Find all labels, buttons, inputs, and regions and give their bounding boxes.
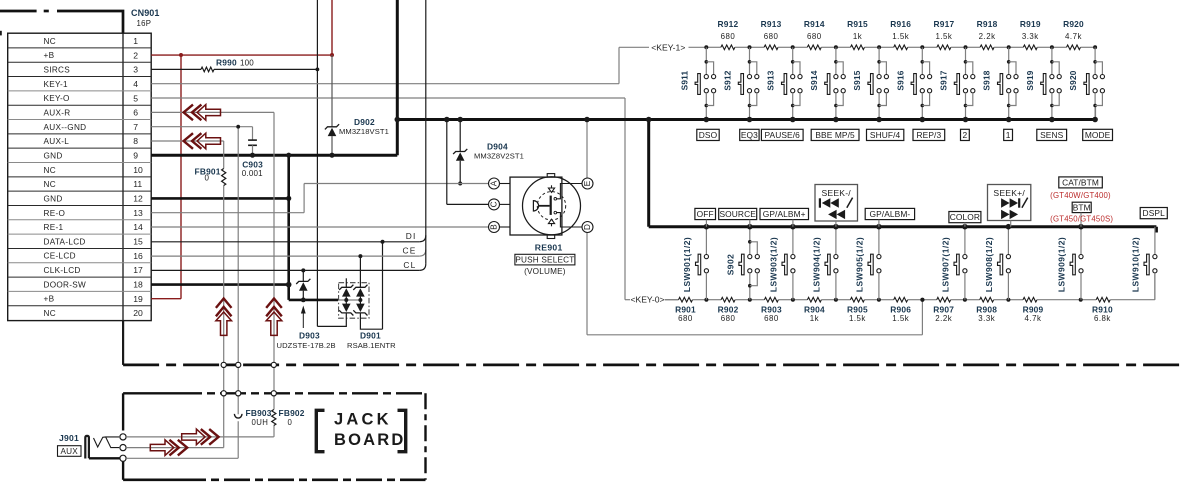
- junction CE to D901: [358, 254, 362, 258]
- resistor R901 680: [665, 297, 707, 323]
- svg-text:S918: S918: [982, 70, 992, 90]
- board border tick: [0, 31, 2, 36]
- net label KEY-0: [630, 295, 664, 305]
- wire SIRCS (pin3) with R990: [151, 0, 319, 326]
- wire CE-LCD / CE (pin16): [151, 250, 426, 257]
- capacitor C903 0.001: [242, 127, 263, 179]
- svg-text:1.5k: 1.5k: [892, 314, 909, 323]
- junction KEY-1 ladder node 6: [920, 45, 924, 49]
- svg-text:S916: S916: [895, 70, 905, 90]
- junction KEY-1 ladder node 7: [964, 45, 968, 49]
- main board border top dash-dot: [0, 11, 123, 33]
- svg-text:S920: S920: [1068, 70, 1078, 90]
- svg-text:FB903: FB903: [246, 408, 272, 418]
- model note (GT40W/GT400): [1050, 191, 1111, 200]
- switch LSW905: [854, 224, 881, 300]
- svg-text:4.7k: 4.7k: [1065, 32, 1082, 41]
- junction KEY-0 ladder node 1: [704, 298, 708, 302]
- junction KEY-0 ladder node 8: [1006, 298, 1010, 302]
- svg-text:D904: D904: [487, 141, 508, 151]
- svg-text:LSW905(1/2): LSW905(1/2): [854, 237, 864, 292]
- wire AUX-R (pin6): [151, 112, 274, 437]
- svg-text:<KEY-1>: <KEY-1>: [651, 42, 685, 52]
- key cap label MODE: [1083, 129, 1113, 140]
- svg-text:3.3k: 3.3k: [1022, 32, 1039, 41]
- svg-text:17: 17: [133, 265, 143, 275]
- svg-text:CLK-LCD: CLK-LCD: [44, 266, 81, 275]
- resistor R913 680: [750, 19, 793, 50]
- svg-text:R908: R908: [976, 305, 997, 315]
- svg-text:AUX-L: AUX-L: [44, 137, 70, 146]
- shielded-cable arrow AUX-L left: [184, 133, 221, 149]
- aux jack J901: [58, 433, 127, 461]
- svg-text:D901: D901: [360, 331, 381, 341]
- svg-text:R910: R910: [1092, 305, 1113, 315]
- svg-text:DOOR-SW: DOOR-SW: [44, 280, 87, 289]
- svg-text:C903: C903: [242, 160, 263, 170]
- svg-text:NC: NC: [44, 37, 56, 46]
- svg-text:R917: R917: [933, 19, 954, 29]
- junction KEY-0 ladder node 2: [748, 298, 752, 302]
- junction D904 bottom on RE-O wire: [458, 182, 462, 186]
- svg-text:1.5k: 1.5k: [935, 32, 952, 41]
- junction D904 top: [457, 117, 463, 123]
- wire GND bus to D904: [459, 120, 461, 184]
- svg-text:RE-O: RE-O: [44, 209, 66, 218]
- svg-text:6: 6: [133, 108, 138, 118]
- switch S917: [939, 47, 975, 122]
- svg-text:BBE MP/5: BBE MP/5: [815, 130, 855, 140]
- key cap label SEEK-: [815, 185, 858, 227]
- resistor R916 1.5k: [879, 19, 922, 50]
- svg-text:D: D: [583, 224, 592, 230]
- key cap label OFF: [695, 208, 716, 226]
- svg-text:OFF: OFF: [697, 209, 714, 219]
- svg-text:3.3k: 3.3k: [978, 314, 995, 323]
- wire GND pin12 thick: [151, 196, 291, 201]
- svg-text:LSW907(1/2): LSW907(1/2): [940, 237, 950, 292]
- key cap label PAUSE/6: [761, 129, 803, 140]
- svg-text:R919: R919: [1020, 19, 1041, 29]
- wire GND bus to encoder pin C: [444, 117, 488, 205]
- junction KEY-1 ladder node 4: [834, 45, 838, 49]
- resistor R919 3.3k: [1009, 19, 1052, 50]
- wire CLK-LCD / CL (pin17): [151, 264, 426, 271]
- svg-text:S914: S914: [809, 70, 819, 90]
- svg-text:UDZSTE-17B.2B: UDZSTE-17B.2B: [277, 341, 336, 350]
- svg-text:MM3Z8V2ST1: MM3Z8V2ST1: [474, 151, 524, 160]
- svg-text:LSW909(1/2): LSW909(1/2): [1057, 237, 1067, 292]
- svg-text:3: 3: [133, 65, 138, 75]
- svg-text:R903: R903: [761, 305, 782, 315]
- svg-text:680: 680: [764, 314, 779, 323]
- switch LSW904: [811, 224, 838, 300]
- svg-text:R918: R918: [977, 19, 998, 29]
- svg-text:S902: S902: [725, 254, 735, 276]
- junction KEY-0 ladder node 7: [963, 298, 967, 302]
- svg-text:1: 1: [133, 36, 138, 46]
- key cap label COLOR: [949, 212, 981, 227]
- svg-text:DSPL: DSPL: [1143, 208, 1166, 218]
- junction GND bus left: [395, 117, 401, 123]
- junction DI branch: [381, 240, 385, 244]
- svg-text:S919: S919: [1025, 70, 1035, 90]
- wire GND vertical x288.7: [286, 153, 291, 300]
- junction KEY-1 ladder node 1: [704, 45, 708, 49]
- svg-text:JACK: JACK: [334, 411, 392, 429]
- switch LSW901: [682, 224, 709, 300]
- ferrite bead FB902 0: [272, 408, 305, 427]
- svg-text:(VOLUME): (VOLUME): [524, 267, 566, 276]
- svg-text:16: 16: [133, 251, 143, 261]
- key cap label GP/ALBM+: [760, 208, 809, 226]
- resistor R907 2.2k: [922, 297, 965, 323]
- svg-text:REP/3: REP/3: [917, 130, 942, 140]
- svg-text:CL: CL: [403, 260, 416, 270]
- svg-text:8: 8: [133, 136, 138, 146]
- key cap label EQ3: [740, 129, 759, 140]
- svg-text:CAT/BTM: CAT/BTM: [1062, 178, 1099, 188]
- svg-text:16P: 16P: [137, 19, 152, 28]
- svg-text:R912: R912: [717, 19, 738, 29]
- zener diode D904 MM3Z8V2ST1: [453, 141, 524, 161]
- svg-text:CN901: CN901: [131, 8, 160, 18]
- svg-text:FB902: FB902: [279, 408, 305, 418]
- svg-text:A: A: [490, 180, 499, 186]
- svg-text:13: 13: [133, 208, 143, 218]
- resistor R915 1k: [836, 19, 879, 50]
- junction KEY-1 ladder node 8: [1007, 45, 1011, 49]
- svg-text:0UH: 0UH: [252, 418, 269, 427]
- svg-text:NC: NC: [44, 309, 56, 318]
- svg-text:BOARD: BOARD: [334, 431, 406, 449]
- board interconnect circles (jack border): [221, 391, 276, 396]
- svg-text:KEY-1: KEY-1: [44, 80, 69, 89]
- svg-text:R901: R901: [675, 305, 696, 315]
- wire DOOR-SW pin18 thick: [151, 282, 291, 288]
- svg-text:680: 680: [721, 32, 736, 41]
- svg-text:19: 19: [133, 294, 143, 304]
- junction KEY-0 ladder node 6: [920, 298, 924, 302]
- svg-text:100: 100: [240, 59, 254, 68]
- key cap label 1: [1004, 129, 1013, 140]
- key cap label DSO: [697, 129, 719, 140]
- svg-text:COLOR: COLOR: [950, 212, 980, 222]
- wire GND vertical riser x397 and top bus: [397, 0, 1095, 155]
- svg-text:1.5k: 1.5k: [892, 32, 909, 41]
- wire AUX--GND (pin7): [151, 127, 252, 459]
- svg-text:0: 0: [288, 418, 293, 427]
- key cap label BTM: [1072, 202, 1091, 227]
- net label CE: [402, 246, 416, 256]
- svg-text:S911: S911: [679, 70, 689, 90]
- svg-text:GND: GND: [44, 151, 63, 160]
- switch LSW910: [1130, 227, 1157, 300]
- svg-text:LSW904(1/2): LSW904(1/2): [811, 237, 821, 292]
- shielded-cable arrow AUX-R up: [266, 299, 282, 336]
- svg-text:GP/ALBM+: GP/ALBM+: [763, 209, 806, 219]
- key cap label GP/ALBM-: [865, 208, 914, 226]
- svg-text:RE-1: RE-1: [44, 223, 64, 232]
- key cap label BBE MP/5: [811, 129, 859, 140]
- net label CL: [403, 260, 416, 270]
- main board border bottom dash-dot: [123, 321, 1180, 365]
- key cap label REP/3: [913, 129, 945, 140]
- switch LSW908: [984, 224, 1011, 300]
- switch LSW903: [768, 224, 795, 300]
- svg-text:R914: R914: [804, 19, 825, 29]
- zener diode D903 UDZSTE-17B.2B: [277, 279, 336, 350]
- svg-text:R906: R906: [890, 305, 911, 315]
- wire +B net (pin2 to pin19, red): [151, 0, 332, 299]
- switch S913: [766, 47, 802, 122]
- key cap label SOURCE: [719, 208, 757, 226]
- svg-text:SENS: SENS: [1040, 130, 1064, 140]
- key cap label DSPL: [1140, 208, 1167, 219]
- svg-text:2: 2: [133, 50, 138, 60]
- switch S920: [1068, 47, 1104, 122]
- svg-text:S913: S913: [766, 70, 776, 90]
- wire encoder pin D to KEY-0 ladder: [587, 233, 922, 335]
- switch S915: [852, 47, 888, 122]
- wire RE-O (pin13) to encoder pin A: [151, 184, 488, 213]
- svg-text:GP/ALBM-: GP/ALBM-: [869, 209, 910, 219]
- svg-text:C: C: [490, 201, 499, 207]
- resistor R910 6.8k: [1081, 297, 1155, 323]
- svg-text:15: 15: [133, 237, 143, 247]
- svg-text:MODE: MODE: [1085, 130, 1111, 140]
- zener diode D902 MM3Z18VST1: [325, 117, 389, 136]
- svg-text:<KEY-0>: <KEY-0>: [630, 295, 664, 305]
- wire GND branch to lower bus: [649, 120, 1157, 233]
- rotary encoder RE901 PUSH SELECT (VOLUME): [489, 174, 594, 276]
- svg-text:D902: D902: [354, 117, 375, 127]
- key cap label SEEK+: [988, 185, 1031, 227]
- svg-text:PAUSE/6: PAUSE/6: [764, 130, 800, 140]
- wire +B to GND through D902: [329, 55, 334, 158]
- resistor R906 1.5k: [879, 297, 923, 323]
- svg-text:E: E: [583, 180, 592, 186]
- junction +B at x181: [179, 53, 183, 57]
- switch S902: [725, 224, 759, 300]
- svg-text:680: 680: [807, 32, 822, 41]
- shielded-cable arrow AUX-R left: [184, 105, 221, 121]
- svg-text:SHUF/4: SHUF/4: [870, 130, 901, 140]
- svg-text:SIRCS: SIRCS: [44, 66, 71, 75]
- ferrite bead FB903 0UH: [234, 408, 271, 427]
- wire KEY-1 (pin4) to key ladder: [151, 47, 706, 83]
- svg-text:R904: R904: [804, 305, 825, 315]
- key cap label SHUF/4: [867, 129, 904, 140]
- svg-text:680: 680: [764, 32, 779, 41]
- svg-text:(GT450/GT450S): (GT450/GT450S): [1050, 215, 1113, 224]
- svg-text:LSW901(1/2): LSW901(1/2): [682, 237, 692, 292]
- wire RE-1 (pin14) to encoder pin B: [151, 226, 488, 228]
- svg-text:LSW908(1/2): LSW908(1/2): [984, 237, 994, 292]
- svg-text:14: 14: [133, 222, 143, 232]
- svg-text:11: 11: [133, 179, 142, 189]
- svg-text:J901: J901: [59, 433, 79, 443]
- resistor R902 680: [706, 297, 749, 323]
- svg-text:R909: R909: [1023, 305, 1044, 315]
- svg-text:S912: S912: [723, 70, 733, 90]
- wire AUX-L (pin8): [151, 141, 224, 448]
- svg-text:0.001: 0.001: [242, 169, 263, 178]
- svg-text:4: 4: [133, 79, 138, 89]
- svg-text:R916: R916: [890, 19, 911, 29]
- junction D-wire to KEY-0: [920, 298, 924, 302]
- svg-text:680: 680: [678, 314, 693, 323]
- wire KEY-0 ladder end to LSW910: [1154, 273, 1156, 300]
- net label DI: [406, 231, 417, 241]
- junction +B at x332: [330, 53, 334, 57]
- svg-text:0: 0: [205, 174, 210, 183]
- svg-text:12: 12: [133, 194, 143, 204]
- svg-text:R907: R907: [933, 305, 954, 315]
- svg-text:1k: 1k: [810, 314, 819, 323]
- key cap label SENS: [1037, 129, 1067, 140]
- wire LCD bundle riser: [425, 0, 427, 264]
- svg-text:DI: DI: [406, 231, 417, 241]
- svg-text:(GT40W/GT400): (GT40W/GT400): [1050, 191, 1111, 200]
- svg-text:9: 9: [133, 151, 138, 161]
- resistor R905 1.5k: [836, 297, 879, 323]
- junction KEY-0 ladder node 5: [877, 298, 881, 302]
- key cap label CAT/BTM: [1059, 177, 1103, 188]
- model note (GT450/GT450S): [1050, 215, 1113, 224]
- svg-text:CE-LCD: CE-LCD: [44, 252, 76, 261]
- svg-text:CE: CE: [402, 246, 416, 256]
- svg-text:KEY-O: KEY-O: [44, 94, 70, 103]
- wire GND pin9 thick: [151, 154, 397, 157]
- resistor R918 2.2k: [966, 19, 1009, 50]
- junction KEY-1 ladder node 2: [748, 45, 752, 49]
- JACK BOARD logo: [316, 410, 405, 451]
- shielded-cable arrow jack lower right: [150, 440, 187, 456]
- svg-text:GND: GND: [44, 194, 63, 203]
- svg-text:AUX: AUX: [60, 447, 78, 456]
- svg-text:LSW903(1/2): LSW903(1/2): [768, 237, 778, 292]
- svg-text:B: B: [490, 224, 499, 230]
- svg-text:S917: S917: [939, 70, 949, 90]
- svg-text:DATA-LCD: DATA-LCD: [44, 237, 86, 246]
- svg-text:R913: R913: [761, 19, 782, 29]
- switch LSW909: [1057, 224, 1084, 300]
- wire jack sleeve to FB903: [126, 457, 238, 459]
- svg-text:SEEK-/: SEEK-/: [822, 188, 852, 198]
- svg-text:R902: R902: [718, 305, 739, 315]
- junction KEY-0 ladder node 3: [791, 298, 795, 302]
- svg-text:1k: 1k: [853, 32, 862, 41]
- switch S911: [679, 47, 715, 122]
- svg-text:2.2k: 2.2k: [935, 314, 952, 323]
- svg-text:SEEK+/: SEEK+/: [993, 188, 1025, 198]
- svg-text:1.5k: 1.5k: [849, 314, 866, 323]
- svg-text:R905: R905: [847, 305, 868, 315]
- switch S914: [809, 47, 845, 122]
- svg-text:R920: R920: [1063, 19, 1084, 29]
- shielded-cable arrow AUX-L up: [216, 299, 232, 336]
- svg-text:DSO: DSO: [699, 130, 718, 140]
- svg-text:RE901: RE901: [535, 242, 563, 252]
- switch S918: [982, 47, 1018, 122]
- svg-text:SOURCE: SOURCE: [719, 209, 756, 219]
- svg-text:S915: S915: [852, 70, 862, 90]
- svg-text:R990: R990: [216, 58, 237, 68]
- wire CL to D903 to DOOR-SW net: [301, 268, 306, 302]
- wire DATA-LCD / DI (pin15): [151, 235, 426, 242]
- net label KEY-1: [651, 42, 685, 52]
- ferrite bead FB901 0: [195, 167, 226, 186]
- wire encoder pin E to GND bus: [584, 117, 590, 178]
- connector CN901 label: [131, 8, 160, 28]
- svg-text:20: 20: [133, 308, 143, 318]
- wire DI branch down to D901: [382, 242, 384, 329]
- connector CN901 table: [8, 33, 152, 320]
- junction AUX-GND: [236, 125, 240, 129]
- svg-text:BTM: BTM: [1073, 203, 1091, 213]
- resistor R914 680: [793, 19, 836, 50]
- junction KEY-1 ladder node 3: [791, 45, 795, 49]
- svg-text:AUX-R: AUX-R: [44, 108, 71, 117]
- svg-text:MM3Z18VST1: MM3Z18VST1: [339, 127, 389, 136]
- svg-text:+B: +B: [44, 51, 55, 60]
- junction KEY-0 ladder node 9: [1079, 298, 1083, 302]
- svg-text:1: 1: [1006, 130, 1011, 140]
- junction GND bus branch: [646, 117, 652, 123]
- resistor R909 4.7k: [1008, 297, 1080, 323]
- junction KEY-1 ladder node 10: [1093, 45, 1097, 49]
- svg-text:NC: NC: [44, 166, 56, 175]
- svg-text:7: 7: [133, 122, 138, 132]
- svg-text:RSAB.1ENTR: RSAB.1ENTR: [347, 341, 396, 350]
- switch S919: [1025, 47, 1061, 122]
- resistor R903 680: [750, 297, 793, 323]
- junction KEY-0 ladder node 4: [834, 298, 838, 302]
- svg-text:PUSH SELECT: PUSH SELECT: [515, 255, 574, 264]
- svg-text:2: 2: [963, 130, 968, 140]
- svg-text:AUX--GND: AUX--GND: [44, 123, 87, 132]
- svg-text:EQ3: EQ3: [741, 130, 758, 140]
- svg-text:680: 680: [721, 314, 736, 323]
- key cap label 2: [961, 129, 970, 140]
- resistor R908 3.3k: [965, 297, 1009, 323]
- wire KEY-O (pin5) to lower key ladder: [151, 98, 678, 300]
- svg-text:+B: +B: [44, 295, 55, 304]
- wire jack ring to FB901 path: [126, 447, 224, 449]
- wire jack tip to FB902: [126, 436, 274, 438]
- switch LSW907: [940, 224, 967, 300]
- resistor R912 680: [706, 19, 749, 50]
- board interconnect circles (main border): [221, 362, 276, 367]
- junction KEY-1 ladder node 9: [1050, 45, 1054, 49]
- svg-text:18: 18: [133, 279, 143, 289]
- svg-text:5: 5: [133, 93, 138, 103]
- svg-text:LSW910(1/2): LSW910(1/2): [1130, 237, 1140, 292]
- resistor R917 1.5k: [922, 19, 965, 50]
- shielded-cable arrow jack upper right: [182, 429, 219, 445]
- switch S916: [895, 47, 931, 122]
- resistor R920 4.7k: [1052, 19, 1095, 50]
- svg-text:2.2k: 2.2k: [979, 32, 996, 41]
- wire thick elbow to D903/D901: [289, 299, 361, 302]
- svg-text:D903: D903: [299, 331, 320, 341]
- resistor R904 1k: [793, 297, 836, 323]
- svg-text:NC: NC: [44, 180, 56, 189]
- junction KEY-1 ladder node 5: [877, 45, 881, 49]
- svg-text:R915: R915: [847, 19, 868, 29]
- svg-text:4.7k: 4.7k: [1025, 314, 1042, 323]
